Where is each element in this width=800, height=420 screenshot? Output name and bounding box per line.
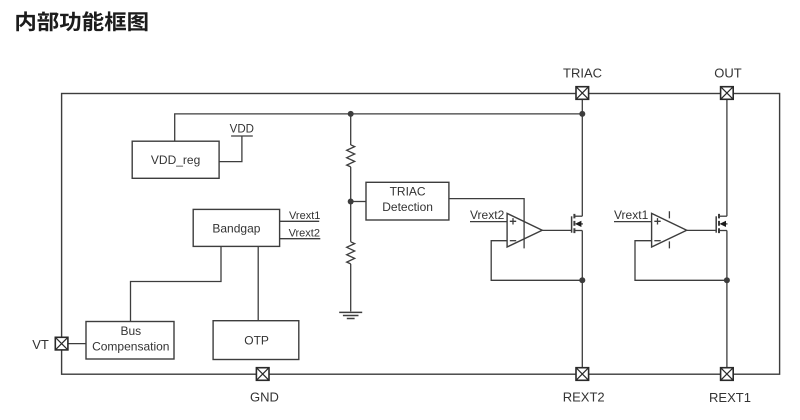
wire OUT rail (drain side)	[726, 99, 728, 216]
net Vrext1 input wire to U2	[614, 221, 652, 223]
svg-text:VT: VT	[32, 337, 49, 352]
ground	[339, 312, 362, 318]
resistor R2	[347, 242, 355, 264]
pad REXT1	[721, 368, 734, 381]
node junction at TRIAC rail	[579, 111, 585, 117]
svg-text:OTP: OTP	[244, 334, 269, 348]
wire REXT1 rail (source side)	[726, 231, 728, 368]
title 内部功能框图	[16, 11, 147, 31]
op-amp U2	[652, 211, 687, 248]
block TRIAC Detection	[366, 182, 449, 220]
svg-text:Bus: Bus	[120, 324, 141, 338]
block OTP	[213, 321, 299, 360]
wire U2 output to Q2 gate	[687, 229, 717, 231]
svg-text:Bandgap: Bandgap	[212, 221, 260, 235]
wire TRIAC rail (drain side)	[581, 99, 583, 216]
wire Bandgap to OTP	[257, 246, 259, 320]
svg-text:Vrext2: Vrext2	[470, 208, 505, 222]
node junction at resistor rail top	[348, 111, 354, 117]
pad REXT2	[576, 368, 589, 381]
wire tap to TRIAC Detection	[351, 201, 366, 203]
op-amp U1	[507, 213, 542, 247]
net Vrext1 stub from Bandgap	[280, 220, 320, 222]
svg-text:Vrext1: Vrext1	[289, 210, 320, 222]
wire U1 output to Q1 gate	[542, 229, 571, 231]
net Vrext2 stub from Bandgap	[280, 238, 321, 240]
chip boundary	[62, 94, 780, 375]
net VDD underline	[231, 135, 253, 137]
svg-text:VDD: VDD	[230, 124, 254, 136]
transistor Q1	[572, 214, 583, 233]
svg-text:REXT1: REXT1	[709, 390, 751, 405]
svg-text:VDD_reg: VDD_reg	[151, 153, 200, 167]
wire VT pad to Bus Compensation	[68, 343, 86, 345]
svg-text:Vrext1: Vrext1	[614, 208, 649, 222]
wire TRIAC Detection to op-amp U1 supply	[449, 199, 524, 249]
node junction at TRIAC Detection tap	[348, 199, 354, 205]
svg-text:TRIAC: TRIAC	[390, 184, 426, 198]
node junction feedback to rail	[724, 277, 730, 283]
block Bus Compensation	[86, 322, 174, 360]
svg-text:GND: GND	[250, 390, 279, 405]
wire U1 feedback	[491, 241, 582, 281]
wire VDD_reg top to rail	[175, 114, 583, 141]
wire VDD_reg right to VDD	[219, 136, 242, 162]
wire REXT2 rail (source side)	[581, 231, 583, 368]
net Vrext2 input wire to U1	[470, 221, 507, 223]
pad OUT	[721, 87, 734, 100]
block Bandgap	[193, 209, 279, 246]
transistor Q2	[716, 214, 727, 233]
wire Bandgap to Bus Compensation	[131, 246, 222, 321]
svg-text:Vrext2: Vrext2	[289, 228, 320, 240]
node junction feedback to rail	[579, 277, 585, 283]
wire resistor rail upper lead	[350, 114, 352, 145]
block VDD_reg	[132, 141, 219, 178]
svg-text:OUT: OUT	[714, 66, 742, 81]
wire U2 feedback	[635, 241, 727, 281]
svg-text:Detection: Detection	[382, 200, 433, 214]
pad TRIAC	[576, 87, 589, 100]
svg-text:REXT2: REXT2	[563, 390, 605, 405]
wire rail between resistors	[350, 167, 352, 242]
svg-text:TRIAC: TRIAC	[563, 66, 602, 81]
pad GND	[256, 368, 269, 381]
wire rail lower lead	[350, 264, 352, 312]
svg-text:Compensation: Compensation	[92, 340, 169, 354]
resistor R1	[347, 145, 355, 167]
pad VT	[55, 337, 68, 350]
